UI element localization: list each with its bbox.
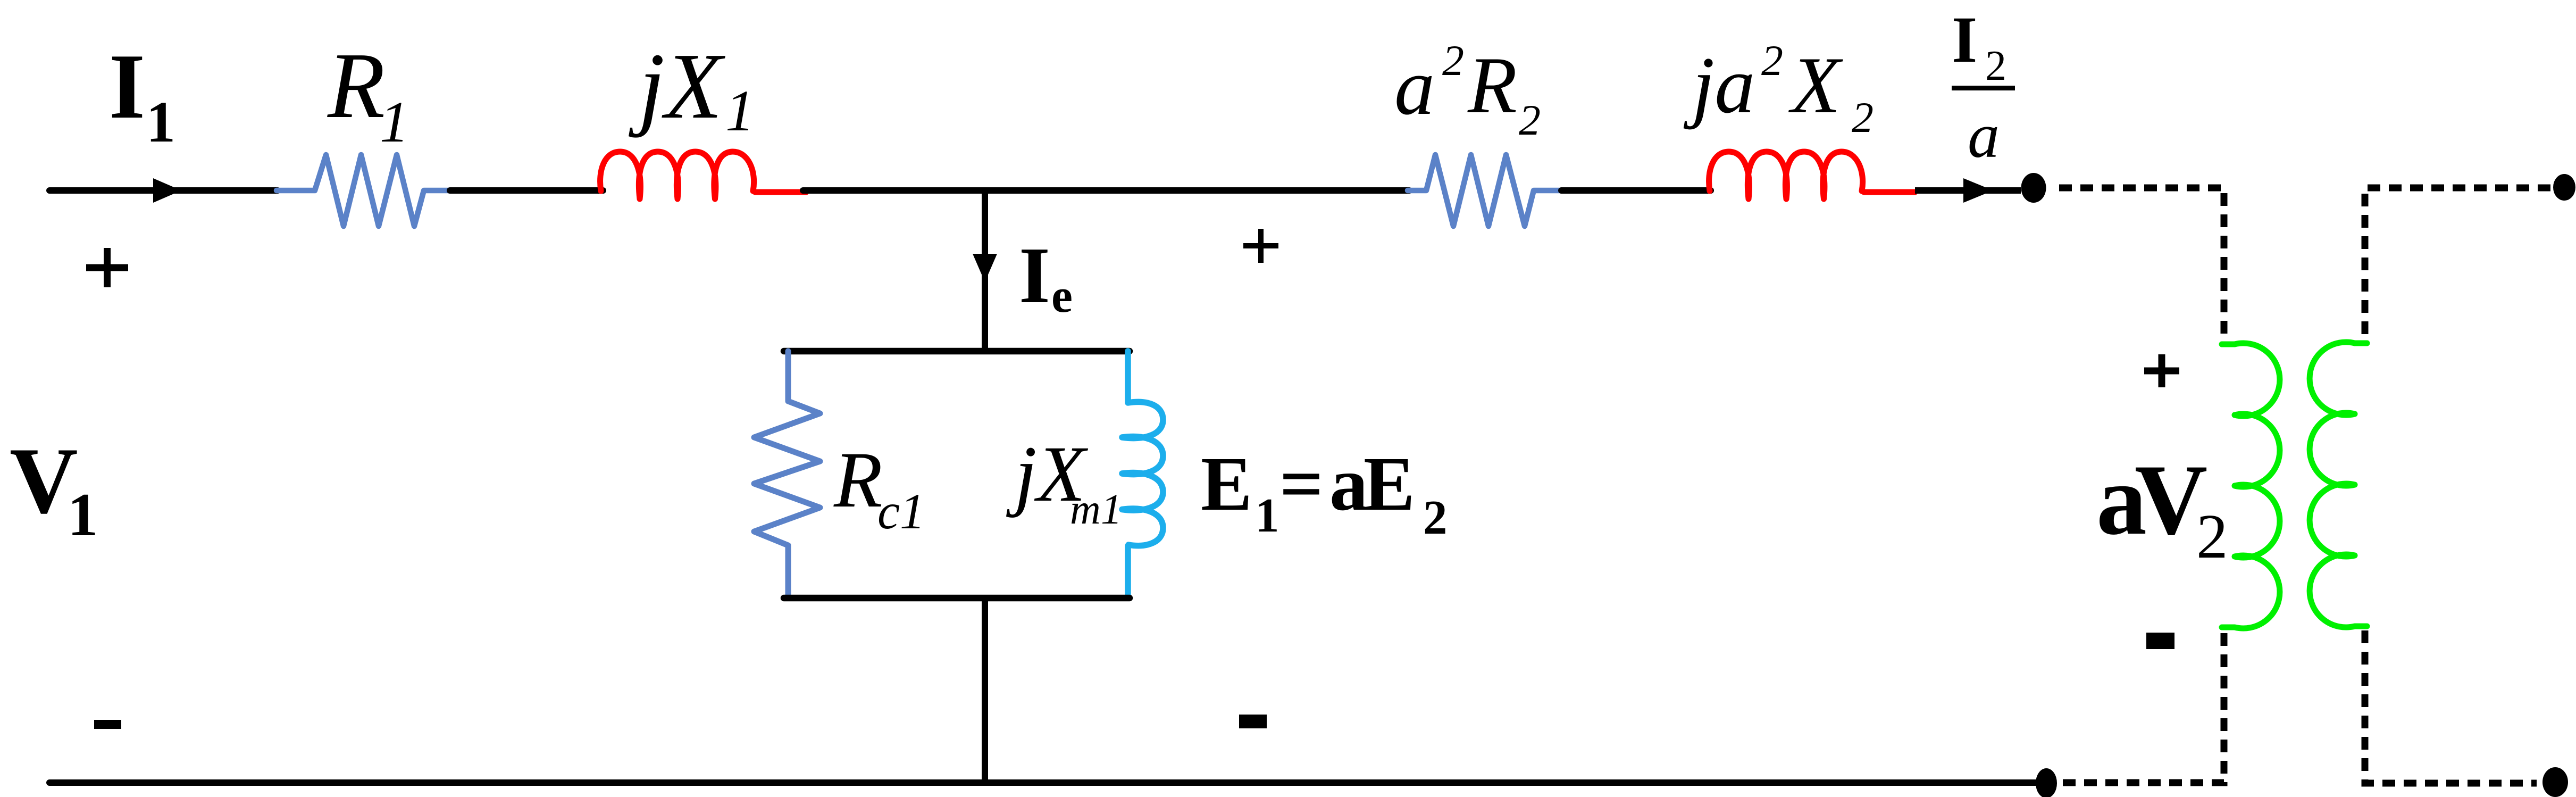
inductor jXm1 [1122,351,1163,598]
svg-text:2: 2 [1985,43,2006,89]
node bottom-right [2542,767,2568,797]
svg-text:=: = [1279,442,1324,527]
node output top [2021,173,2046,203]
svg-text:1: 1 [380,89,409,154]
svg-text:E: E [1364,442,1415,527]
svg-text:ja: ja [1683,40,1755,130]
svg-text:2: 2 [1442,36,1464,85]
svg-text:2: 2 [1519,96,1541,144]
arrow I1 direction [153,178,181,203]
svg-text:2: 2 [1423,491,1448,544]
svg-text:a: a [1394,42,1435,131]
wire dashed top-left to transformer [2059,188,2224,337]
wire a2R2 to ja2X2 [1561,187,1711,194]
svg-text:2: 2 [1852,93,1874,142]
svg-text:I: I [1019,230,1050,320]
svg-text:e: e [1051,270,1073,322]
resistor R1 [277,155,450,226]
label minus (left) [94,720,121,729]
svg-text:R: R [327,34,385,138]
svg-text:E: E [1201,442,1252,527]
wire dashed top-right to edge node [2365,188,2550,337]
wire jX1 to a2R2 (through shunt node) [803,187,1409,194]
label + (right) [2144,354,2179,387]
wire dashed bottom-left of transformer [2062,633,2224,783]
inductor jX1 [600,152,806,199]
wire top-left input [49,187,278,194]
resistor Rc1 [754,351,820,598]
svg-text:R: R [833,436,883,524]
svg-text:1: 1 [725,78,755,143]
wire dashed bottom-right to edge node [2365,630,2537,783]
svg-text:2: 2 [1761,36,1783,85]
transformer primary coil (left, green) [2222,343,2280,628]
node output bottom [2036,768,2057,797]
svg-text:c: c [877,483,900,539]
label minus (right) [2146,633,2174,649]
wire shunt branch vertical top [982,190,988,352]
wire shunt branch vertical bottom [982,598,988,783]
svg-text:jX: jX [629,34,725,138]
label + (left) [86,248,128,287]
arrow I2/a direction [1963,178,1993,203]
wire bottom return [49,779,2037,786]
svg-text:m: m [1070,486,1101,533]
svg-text:1: 1 [146,89,175,154]
svg-text:X: X [1788,40,1843,130]
svg-text:2: 2 [2196,501,2228,571]
svg-text:1: 1 [900,483,925,539]
transformer secondary coil (right, green) [2310,342,2367,627]
svg-text:1: 1 [1101,486,1122,533]
svg-text:a: a [1329,442,1368,527]
node box bottom bar [784,595,1130,602]
wire between R1 and jX1 [450,187,603,194]
svg-text:1: 1 [1255,488,1279,542]
wire ja2X2 to output node [1915,187,2021,194]
svg-text:I: I [1952,3,1977,76]
label + (middle) [1243,229,1278,263]
node box top bar [784,348,1130,355]
arrow Ie direction [973,254,997,282]
resistor a2R2 [1408,155,1561,226]
svg-text:R: R [1467,40,1517,130]
label minus (middle) [1239,715,1267,728]
inductor ja2X2 [1709,152,1915,199]
svg-text:a: a [1968,100,2000,171]
node top-right [2553,174,2575,201]
svg-text:I: I [109,35,145,138]
svg-text:1: 1 [68,481,98,549]
